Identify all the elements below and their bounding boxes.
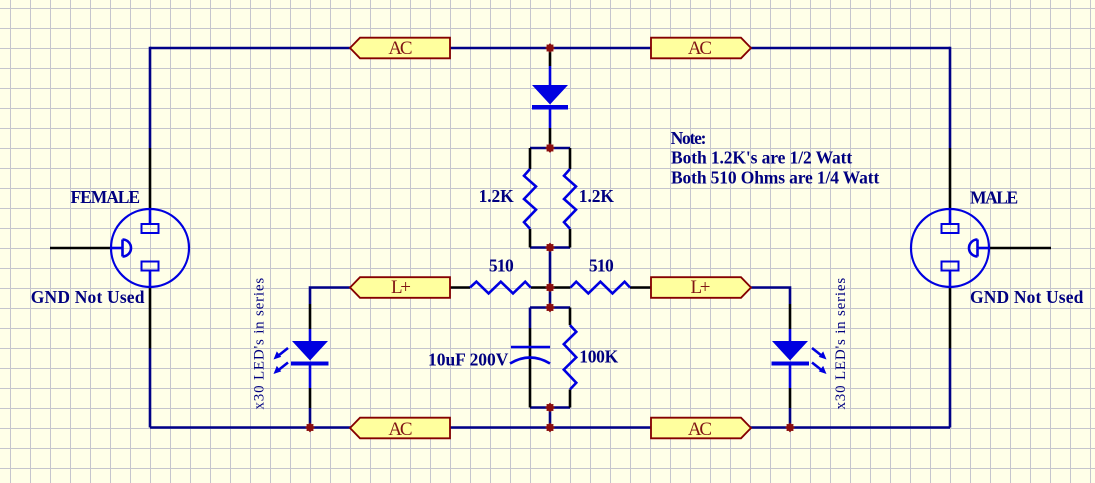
svg-text:Both 510 Ohms are 1/4 Watt: Both 510 Ohms are 1/4 Watt [671, 167, 879, 187]
svg-text:AC: AC [688, 419, 712, 440]
svg-text:AC: AC [688, 38, 712, 59]
svg-text:1.2K: 1.2K [479, 186, 515, 206]
svg-text:AC: AC [388, 38, 412, 59]
svg-text:Note:: Note: [671, 128, 707, 148]
svg-text:100K: 100K [579, 347, 618, 367]
svg-text:GND Not Used: GND Not Used [31, 287, 145, 307]
svg-text:x30 LED's in series: x30 LED's in series [833, 277, 849, 409]
svg-text:GND Not Used: GND Not Used [970, 287, 1084, 307]
svg-text:L+: L+ [391, 277, 411, 298]
svg-text:MALE: MALE [970, 188, 1018, 208]
svg-text:510: 510 [489, 256, 514, 276]
svg-text:10uF 200V: 10uF 200V [428, 349, 509, 369]
svg-text:AC: AC [388, 419, 412, 440]
svg-text:510: 510 [589, 256, 614, 276]
svg-text:1.2K: 1.2K [579, 186, 615, 206]
svg-text:Both 1.2K's are 1/2 Watt: Both 1.2K's are 1/2 Watt [671, 148, 852, 168]
svg-text:x30 LED's in series: x30 LED's in series [252, 277, 268, 409]
svg-text:FEMALE: FEMALE [71, 187, 141, 207]
svg-text:L+: L+ [691, 277, 711, 298]
